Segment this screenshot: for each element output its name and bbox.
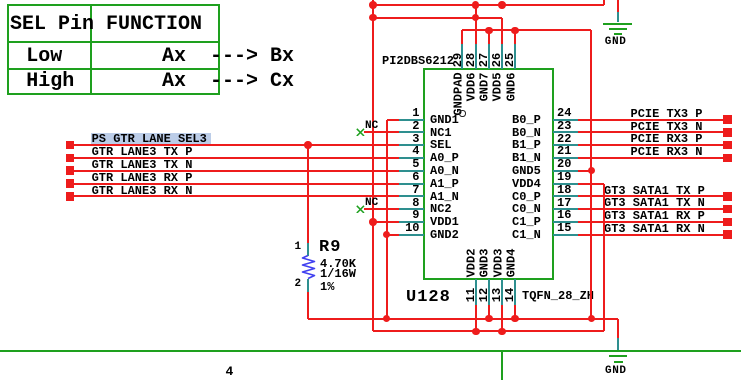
off-page connector square GT3 SATA1 TX P bbox=[723, 192, 732, 201]
wire GND bus drop red bbox=[617, 319, 619, 339]
off-page connector square PS GTR LANE SEL3 bbox=[66, 141, 75, 150]
pin 12 number bbox=[478, 288, 490, 302]
wire net GT3 SATA1 TX P bbox=[578, 195, 724, 197]
pin 6 stub (left) bbox=[399, 183, 424, 185]
table row divider 1 bbox=[8, 41, 220, 43]
junction pin14-bus bbox=[511, 315, 519, 323]
pin 24 number bbox=[557, 107, 571, 119]
wire pin 28 vertical bbox=[475, 5, 477, 44]
pin 24 name B0_P bbox=[512, 114, 541, 126]
pin 18 name C0_P bbox=[512, 191, 541, 203]
pin 22 name B1_P bbox=[512, 139, 541, 151]
pin 7 number bbox=[412, 184, 419, 196]
table cell Ax to Bx bbox=[162, 47, 294, 67]
wire net GTR LANE3 TX P bbox=[66, 157, 399, 159]
off-page connector square GT3 SATA1 RX N bbox=[723, 230, 732, 239]
table cell High bbox=[26, 72, 74, 92]
pin 26 name VDD5 bbox=[492, 72, 504, 101]
pin 10 number bbox=[405, 222, 419, 234]
pin 28 number bbox=[465, 53, 477, 67]
ground top bar 1 bbox=[603, 23, 632, 25]
wire net GTR LANE3 TX N bbox=[66, 170, 399, 172]
pin 29 name GNDPAD bbox=[452, 73, 464, 116]
off-page connector square GT3 SATA1 TX N bbox=[723, 205, 732, 214]
pin 16 name C1_P bbox=[512, 216, 541, 228]
wire pin 9 VDD1 bbox=[373, 221, 399, 223]
junction pin13-vddbus bbox=[498, 328, 506, 336]
pin 4 name A0_P bbox=[430, 152, 459, 164]
ground symbol top lead red bbox=[617, 0, 619, 12]
pin 7 stub (left) bbox=[399, 195, 424, 197]
wire VDD rail 1 corner up to sheet edge bbox=[603, 0, 605, 5]
pin 2 number bbox=[412, 120, 419, 132]
wire pin 27 vertical bbox=[488, 30, 490, 44]
pin 10 name GND2 bbox=[430, 229, 459, 241]
pin 14 number bbox=[504, 288, 516, 302]
pin 18 stub (right) bbox=[553, 195, 578, 197]
wire net GT3 SATA1 RX P bbox=[578, 221, 724, 223]
off-page connector square GTR LANE3 RX N bbox=[66, 192, 75, 201]
junction riser-rail2 bbox=[369, 14, 377, 22]
pin 13 stub (bottom) bbox=[501, 279, 503, 305]
junction rail1 x503 bbox=[498, 1, 506, 9]
pin 20 name GND5 bbox=[512, 165, 541, 177]
wire pin 12 drop bbox=[488, 305, 490, 319]
pin 1 number bbox=[412, 107, 419, 119]
pin 29 number bbox=[452, 53, 464, 67]
wire pin 13 drop bbox=[501, 305, 503, 332]
net label GT3 SATA1 TX P bbox=[604, 185, 705, 197]
off-page connector square GT3 SATA1 RX P bbox=[723, 218, 732, 227]
pin 28 name VDD6 bbox=[466, 72, 478, 101]
wire net PCIE RX3 N bbox=[578, 157, 724, 159]
table SEL Pin FUNCTION outline bbox=[7, 4, 221, 95]
pin 16 stub (right) bbox=[553, 221, 578, 223]
ground top bar 2 bbox=[609, 28, 627, 30]
wire NC pin bbox=[364, 208, 400, 210]
wire GND bottom bus bbox=[308, 318, 618, 320]
pin 16 number bbox=[557, 209, 571, 221]
net label PCIE TX3 N bbox=[631, 121, 703, 133]
wire VDD riser left bbox=[372, 0, 374, 331]
pin 1 indicator circle bbox=[459, 110, 465, 116]
pin 25 stub (top) bbox=[514, 44, 516, 69]
pin 15 name C1_N bbox=[512, 229, 541, 241]
pin 27 name GND7 bbox=[479, 72, 491, 101]
wire VDD top rail 1 bbox=[373, 4, 604, 6]
R9 pin number 2 bbox=[295, 279, 302, 290]
junction pin25-rail3 bbox=[511, 27, 519, 35]
pin 21 number bbox=[557, 145, 571, 157]
net label GTR LANE3 RX P bbox=[92, 172, 193, 184]
junction SEL-R9 bbox=[304, 141, 312, 149]
pin 13 name VDD3 bbox=[492, 249, 504, 278]
wire green branch down bbox=[501, 351, 503, 380]
pin 8 stub (left) bbox=[399, 208, 424, 210]
pin 6 number bbox=[412, 171, 419, 183]
junction pin9-riser bbox=[369, 218, 377, 226]
wire net PCIE RX3 P bbox=[578, 144, 724, 146]
R9 value 4.70K bbox=[320, 258, 356, 270]
IC part number PI2DBS6212 bbox=[382, 55, 454, 67]
off-page connector square PCIE RX3 N bbox=[723, 154, 732, 163]
pin 9 name VDD1 bbox=[430, 216, 459, 228]
off-page connector square PCIE TX3 N bbox=[723, 128, 732, 137]
ground bottom bar 2 bbox=[609, 355, 627, 357]
pin 7 name A1_N bbox=[430, 191, 459, 203]
pin 15 number bbox=[557, 222, 571, 234]
pin 11 name VDD2 bbox=[466, 249, 478, 278]
IC reference designator U128 bbox=[406, 289, 451, 306]
pin 4 stub (left) bbox=[399, 157, 424, 159]
pin 23 number bbox=[557, 120, 571, 132]
wire pin 19 VDD vertical bbox=[603, 184, 605, 332]
pin 5 name A0_N bbox=[430, 165, 459, 177]
pin 6 name A1_P bbox=[430, 178, 459, 190]
table header text bbox=[10, 15, 202, 35]
ground top bar 3 bbox=[614, 33, 623, 35]
pin 17 stub (right) bbox=[553, 208, 578, 210]
resistor R9 pin 2 lead bbox=[307, 279, 309, 292]
ground symbol top lead teal bbox=[617, 12, 619, 23]
pin 8 name NC2 bbox=[430, 203, 452, 215]
pin 20 stub (right) bbox=[553, 170, 578, 172]
junction pin28-rail1 bbox=[472, 1, 480, 9]
net label GT3 SATA1 RX N bbox=[604, 223, 705, 235]
wire GND horizontal green rail bbox=[0, 350, 741, 352]
pin 2 name NC1 bbox=[430, 127, 452, 139]
NC text bbox=[365, 198, 378, 209]
wire pin 1 GND1 bbox=[387, 119, 400, 121]
pin 25 number bbox=[504, 53, 516, 67]
ground bottom label GND bbox=[605, 366, 627, 377]
wire pin 14 drop bbox=[514, 305, 516, 319]
pin 14 name GND4 bbox=[505, 249, 517, 278]
pin 13 number bbox=[491, 288, 503, 302]
junction pin11-vddbus bbox=[472, 328, 480, 336]
pin 1 name GND1 bbox=[430, 114, 459, 126]
pin 2 stub (left) bbox=[399, 131, 424, 133]
pin 19 name VDD4 bbox=[512, 178, 541, 190]
junction pin28-rail2 bbox=[472, 14, 480, 22]
junction riser-rail1 bbox=[369, 1, 377, 9]
R9 value 1% bbox=[320, 281, 334, 293]
junction pin20 bbox=[588, 167, 596, 175]
selection highlight PS_GTR_LANE_SEL3 bbox=[91, 133, 211, 144]
off-page connector square PCIE TX3 P bbox=[723, 115, 732, 124]
wire SEL net to R9 bbox=[307, 145, 309, 243]
pin 24 stub (right) bbox=[553, 119, 578, 121]
table column divider bbox=[90, 5, 92, 94]
pin 15 stub (right) bbox=[553, 234, 578, 236]
wire pin 10 GND2 bbox=[387, 234, 400, 236]
pin 25 name GND6 bbox=[505, 72, 517, 101]
net label PCIE RX3 N bbox=[631, 146, 703, 158]
off-page connector square GTR LANE3 TX P bbox=[66, 154, 75, 163]
pin 27 stub (top) bbox=[488, 44, 490, 69]
pin 11 stub (bottom) bbox=[475, 279, 477, 305]
wire VDD bottom bus bbox=[373, 330, 604, 332]
pin 23 stub (right) bbox=[553, 131, 578, 133]
IC U128 body outline bbox=[423, 68, 554, 280]
R9 reference designator bbox=[319, 239, 341, 256]
wire VDD rail2 drop to pin 26 bbox=[501, 18, 503, 44]
net label PS GTR LANE SEL3 bbox=[92, 133, 207, 145]
wire net PCIE TX3 N bbox=[578, 131, 724, 133]
pin 20 number bbox=[557, 158, 571, 170]
wire VDD top rail 2 bbox=[373, 17, 502, 19]
pin 18 number bbox=[557, 184, 571, 196]
junction gndright-bus bbox=[588, 315, 596, 323]
junction pin27-rail3 bbox=[485, 27, 493, 35]
wire pin 11 drop bbox=[475, 305, 477, 332]
IC footprint TQFN_28_ZH bbox=[522, 290, 594, 302]
pin 26 stub (top) bbox=[501, 44, 503, 69]
pin 3 name SEL bbox=[430, 139, 452, 151]
pin 9 number bbox=[412, 209, 419, 221]
pin 17 number bbox=[557, 197, 571, 209]
resistor R9 zigzag body bbox=[301, 254, 316, 280]
wire GND top rail 3 bbox=[462, 29, 591, 31]
sheet border zone number 4 bbox=[226, 365, 234, 378]
pin 21 name B1_N bbox=[512, 152, 541, 164]
junction pin10-gndvert bbox=[383, 231, 391, 239]
resistor R9 pin 1 lead bbox=[307, 243, 309, 256]
net label GT3 SATA1 RX P bbox=[604, 210, 705, 222]
wire NC pin bbox=[364, 131, 400, 133]
net label PCIE TX3 P bbox=[631, 108, 703, 120]
pin 29 stub (top) bbox=[461, 44, 463, 69]
junction gndvert-bus bbox=[383, 315, 391, 323]
pin 21 stub (right) bbox=[553, 157, 578, 159]
pin 3 stub (left) bbox=[399, 144, 424, 146]
off-page connector square GTR LANE3 TX N bbox=[66, 166, 75, 175]
NC text bbox=[365, 121, 378, 132]
pin 12 stub (bottom) bbox=[488, 279, 490, 305]
pin 5 number bbox=[412, 158, 419, 170]
pin 26 number bbox=[491, 53, 503, 67]
ground top label GND bbox=[605, 37, 627, 48]
pin 28 stub (top) bbox=[475, 44, 477, 69]
wire net PS GTR LANE SEL3 bbox=[66, 144, 399, 146]
pin 9 stub (left) bbox=[399, 221, 424, 223]
net label GTR LANE3 RX N bbox=[92, 185, 193, 197]
wire pin 29 vertical bbox=[461, 30, 463, 44]
pin 27 number bbox=[478, 53, 490, 67]
pin 11 number bbox=[465, 288, 477, 302]
pin 5 stub (left) bbox=[399, 170, 424, 172]
wire net GT3 SATA1 TX N bbox=[578, 208, 724, 210]
wire pin 19 VDD4 horizontal bbox=[578, 183, 604, 185]
off-page connector square GTR LANE3 RX P bbox=[66, 179, 75, 188]
R9 pin number 1 bbox=[295, 242, 302, 253]
pin 23 name B0_N bbox=[512, 127, 541, 139]
table cell Ax to Cx bbox=[162, 72, 294, 92]
net label GT3 SATA1 TX N bbox=[604, 197, 705, 209]
pin 17 name C0_N bbox=[512, 203, 541, 215]
pin 10 stub (left) bbox=[399, 234, 424, 236]
pin 4 number bbox=[412, 145, 419, 157]
wire pin 25 vertical bbox=[514, 30, 516, 44]
wire net PCIE TX3 P bbox=[578, 119, 724, 121]
ground bottom lead teal bbox=[617, 338, 619, 350]
pin 22 number bbox=[557, 133, 571, 145]
pin 12 name GND3 bbox=[479, 249, 491, 278]
wire R9 pin2 down bbox=[307, 292, 309, 319]
pin 19 number bbox=[557, 171, 571, 183]
wire GND left vertical bbox=[386, 120, 388, 319]
pin 8 number bbox=[412, 197, 419, 209]
pin 1 stub (left) bbox=[399, 119, 424, 121]
wire net GTR LANE3 RX P bbox=[66, 183, 399, 185]
R9 value 1/16W bbox=[320, 268, 356, 280]
no-connect X marker bbox=[356, 128, 365, 137]
wire net GT3 SATA1 RX N bbox=[578, 234, 724, 236]
junction pin12-bus bbox=[485, 315, 493, 323]
ground bottom bar 3 bbox=[614, 361, 623, 363]
table row divider 2 bbox=[8, 68, 220, 70]
wire GND right vertical bbox=[590, 30, 592, 318]
table cell Low bbox=[26, 47, 62, 67]
no-connect X marker bbox=[356, 205, 365, 214]
net label GTR LANE3 TX N bbox=[92, 159, 193, 171]
wire pin 20 to GND vertical bbox=[578, 170, 591, 172]
off-page connector square PCIE RX3 P bbox=[723, 141, 732, 150]
net label GTR LANE3 TX P bbox=[92, 146, 193, 158]
pin 22 stub (right) bbox=[553, 144, 578, 146]
net label PCIE RX3 P bbox=[631, 133, 703, 145]
wire net GTR LANE3 RX N bbox=[66, 195, 399, 197]
pin 19 stub (right) bbox=[553, 183, 578, 185]
pin 14 stub (bottom) bbox=[514, 279, 516, 305]
pin 3 number bbox=[412, 133, 419, 145]
